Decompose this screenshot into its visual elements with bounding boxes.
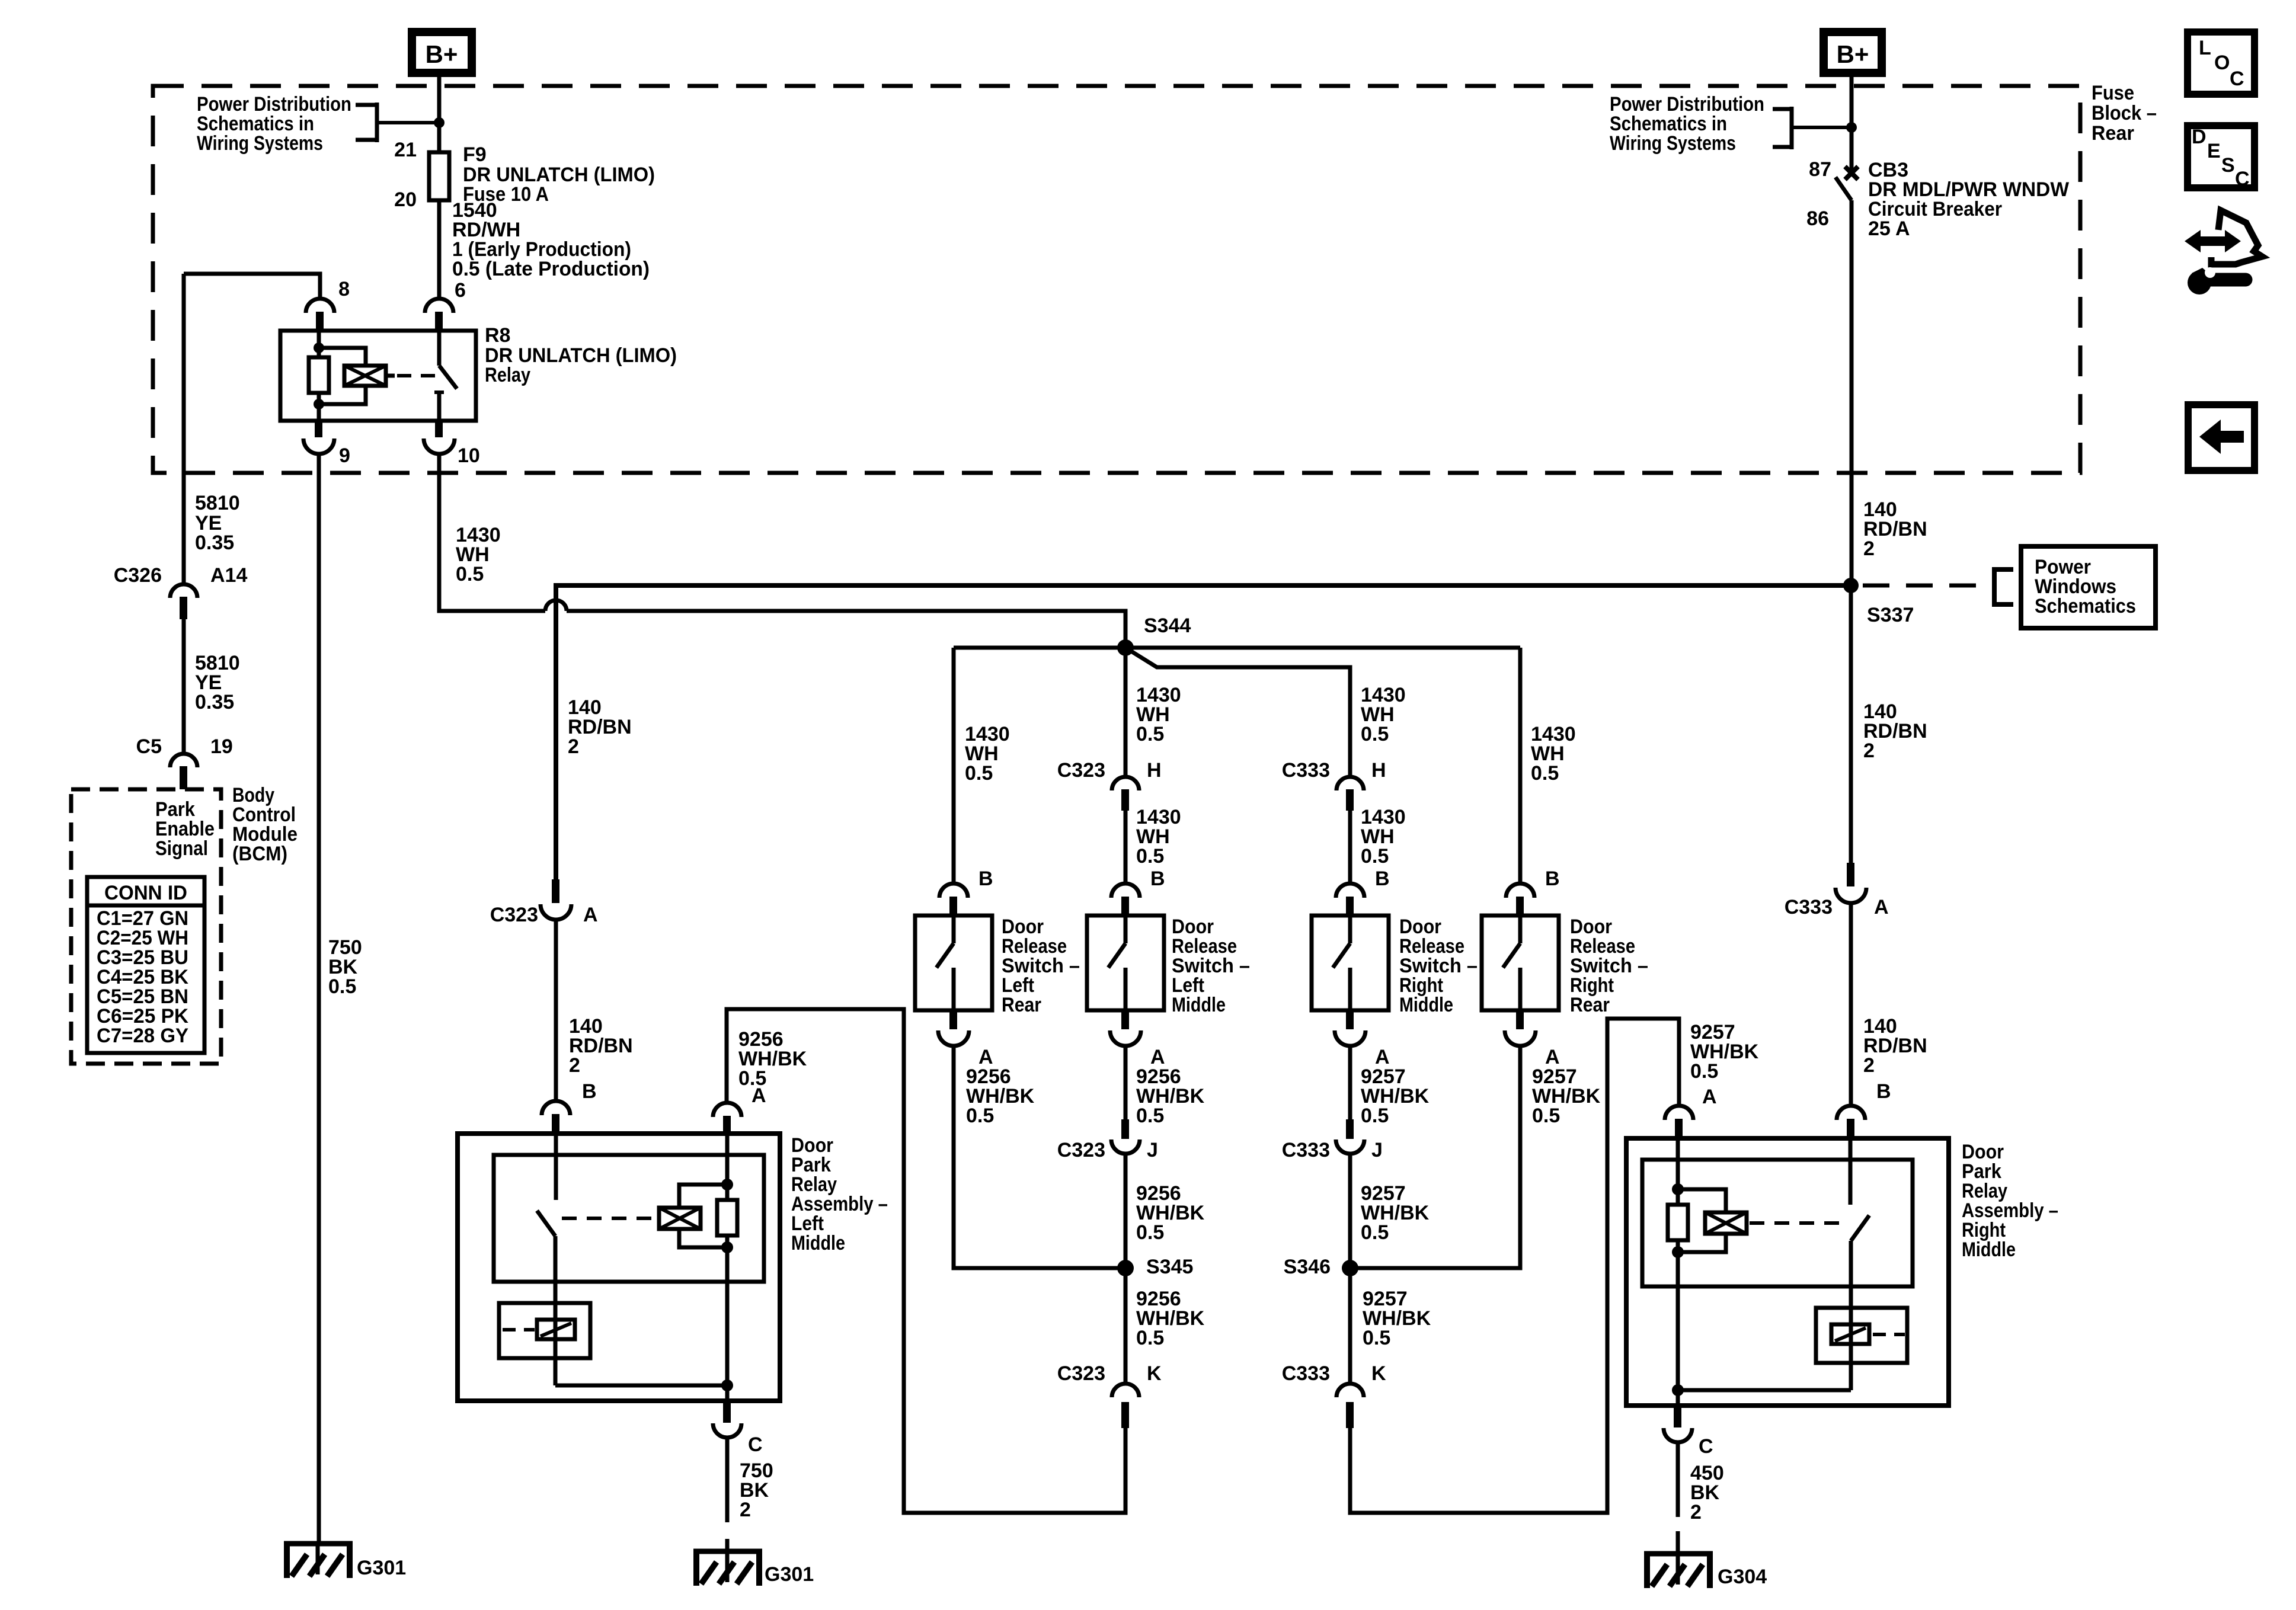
door release switch right rear box	[1482, 916, 1559, 1010]
label wire 140 RD/BN 2 (left column lower)	[569, 1015, 633, 1077]
label wire 9256 WH/BK 0.5 (below S345)	[1136, 1288, 1205, 1349]
svg-text:0.5: 0.5	[1136, 1105, 1164, 1127]
label wire 1430 WH 0.5 (at relay pin 10)	[456, 524, 501, 585]
connector C323 pin J (tick + arc)	[1111, 1119, 1140, 1154]
svg-text:C323: C323	[1057, 1139, 1105, 1161]
svg-text:J: J	[1371, 1139, 1383, 1161]
svg-text:0.5: 0.5	[1363, 1327, 1390, 1349]
svg-text:C326: C326	[114, 564, 162, 587]
splice S346	[1342, 1260, 1358, 1276]
label wire 5810 YE 0.35 (upper)	[195, 492, 240, 554]
svg-text:A: A	[583, 904, 598, 926]
svg-text:0.5: 0.5	[1361, 1105, 1389, 1127]
connector C323 pin H (arc + tick)	[1112, 777, 1139, 811]
body control module dashed box (BCM)	[71, 789, 221, 1064]
door release switch left rear box	[915, 916, 992, 1010]
wire S346 to C333 K	[1348, 1268, 1352, 1384]
label wire 9256 WH/BK 0.5 (relay assembly A)	[738, 1028, 807, 1090]
svg-text:L: L	[2199, 37, 2211, 59]
node coil bottom junction	[314, 399, 324, 409]
wire 750 BK from relay pin 9 to ground G301	[317, 454, 321, 1541]
label wire 1430 WH 0.5 (left middle lower)	[1136, 806, 1181, 868]
svg-text:0.5: 0.5	[1531, 762, 1559, 785]
connector A right middle (tick + arc)	[1335, 1010, 1366, 1046]
svg-text:A14: A14	[210, 564, 247, 587]
wire 140 RD/BN from S337 to C333 A	[1849, 585, 1853, 863]
svg-text:K: K	[1147, 1362, 1162, 1385]
svg-text:E: E	[2207, 140, 2221, 162]
power windows schematics box	[2021, 546, 2156, 628]
relay R8 coil branch wire	[317, 331, 321, 357]
wire S344 diagonal to right middle column	[1125, 648, 1350, 777]
wire bus through S344 to rear switch columns	[954, 646, 1520, 650]
label R8 DR UNLATCH (LIMO) Relay	[485, 324, 677, 386]
label Power Distribution Schematics in Wiring Systems (right)	[1610, 93, 1764, 155]
ground G301 (left)	[284, 1541, 353, 1578]
svg-text:R8: R8	[485, 324, 510, 347]
svg-text:Middle: Middle	[1399, 994, 1453, 1016]
label CB3 DR MDL/PWR WNDW Circuit Breaker 25 A	[1868, 159, 2070, 240]
label Door Release Switch - Right Middle	[1399, 916, 1478, 1016]
label Door Release Switch - Left Middle	[1172, 916, 1250, 1016]
connector pin 6 (arc + tick)	[425, 299, 453, 331]
fuse block dashed box (Fuse Block - Rear)	[153, 86, 2080, 473]
label Park Enable Signal	[155, 798, 215, 860]
svg-text:B: B	[1150, 868, 1165, 890]
label wire 9257 WH/BK 0.5 (relay assembly right A)	[1690, 1021, 1759, 1083]
connector A left middle (tick + arc)	[1110, 1010, 1141, 1046]
svg-text:H: H	[1371, 759, 1386, 782]
svg-text:G301: G301	[357, 1557, 406, 1579]
wire B+ left down to fuse	[437, 77, 442, 151]
wire 1430 WH continues to S344	[567, 611, 1125, 648]
wire fuse to relay pin 6	[437, 202, 442, 299]
connector B door park relay left (arc + tick)	[542, 1101, 570, 1135]
node bottom junction right assembly	[1672, 1384, 1684, 1396]
svg-text:0.5: 0.5	[1361, 723, 1389, 745]
connector pin 9 (tick + arc)	[303, 421, 334, 454]
svg-text:2: 2	[568, 735, 579, 758]
connector C323 pin A (tick + arc)	[541, 879, 571, 920]
svg-text:Relay: Relay	[485, 364, 530, 386]
door park relay assembly right inner relay box	[1642, 1160, 1913, 1286]
svg-text:C: C	[2235, 168, 2250, 190]
svg-text:CONN ID: CONN ID	[104, 882, 187, 904]
svg-text:C: C	[1699, 1435, 1713, 1458]
dashed wire to power windows schematics	[1863, 584, 1994, 588]
label Door Park Relay Assembly - Right Middle	[1962, 1141, 2058, 1261]
svg-text:Wiring Systems: Wiring Systems	[197, 132, 323, 155]
svg-text:C323: C323	[1057, 1362, 1105, 1385]
connector B door park relay right (arc + tick)	[1837, 1106, 1865, 1140]
svg-text:O: O	[2214, 52, 2230, 74]
node junction at power distribution tap (right)	[1846, 122, 1857, 133]
wire 9257 loop to door park relay right pin A	[1350, 1019, 1679, 1513]
splice S344	[1117, 639, 1134, 656]
svg-text:2: 2	[740, 1499, 751, 1521]
left assembly switch branch	[537, 1135, 556, 1385]
svg-text:Middle: Middle	[791, 1232, 845, 1254]
label wire 140 RD/BN 2 (left column upper)	[568, 696, 632, 758]
label F9 DR UNLATCH (LIMO) Fuse 10 A	[463, 143, 655, 206]
svg-text:B: B	[1876, 1080, 1891, 1103]
resistor inside relay R8	[309, 357, 329, 393]
svg-text:G304: G304	[1718, 1566, 1767, 1588]
connector pin 10 (tick + arc)	[424, 421, 455, 454]
svg-text:S: S	[2221, 154, 2235, 177]
label wire 140 RD/BN 2 (above S337)	[1863, 498, 1927, 560]
svg-text:C323: C323	[1057, 759, 1105, 782]
svg-text:Schematics: Schematics	[2035, 595, 2136, 617]
door release switch right middle box	[1312, 916, 1389, 1010]
svg-text:A: A	[1702, 1086, 1717, 1108]
right assembly bottom wire	[1678, 1388, 1851, 1393]
svg-text:C333: C333	[1282, 759, 1330, 782]
bracket power distribution (right)	[1773, 107, 1851, 149]
node bottom junction left assembly	[721, 1379, 733, 1391]
svg-text:0.5: 0.5	[965, 762, 993, 785]
svg-text:6: 6	[455, 279, 466, 302]
svg-text:Middle: Middle	[1172, 994, 1226, 1016]
wire 750 BK to ground G301	[725, 1438, 730, 1551]
svg-text:A: A	[1874, 896, 1889, 918]
connector C333 pin H (arc + tick)	[1336, 777, 1364, 811]
label Door Release Switch - Right Rear	[1570, 916, 1648, 1016]
left assembly coil (box with X)	[659, 1208, 701, 1229]
door park relay assembly right middle outer box	[1626, 1138, 1949, 1406]
left assembly coil branch	[679, 1135, 737, 1401]
connector B right rear (arc + tick)	[1506, 884, 1534, 917]
svg-text:Block –: Block –	[2092, 102, 2157, 124]
icon LOC box	[2188, 32, 2255, 94]
label Power Distribution Schematics in Wiring Systems (left)	[197, 93, 351, 155]
relay coil (box with X)	[344, 366, 395, 386]
svg-text:C: C	[2230, 68, 2244, 90]
connector pin 8 (arc + tick)	[306, 299, 334, 331]
label wire 9257 WH/BK 0.5 (above S346)	[1361, 1182, 1430, 1244]
wire resistor bottom	[317, 393, 321, 421]
label Body Control Module (BCM)	[232, 784, 298, 865]
svg-text:J: J	[1147, 1139, 1158, 1161]
bracket power distribution (left)	[356, 103, 439, 142]
svg-text:2: 2	[1863, 1054, 1875, 1077]
svg-text:Rear: Rear	[1002, 994, 1041, 1016]
wire 9256 loop to door park relay left pin A	[727, 1009, 1125, 1513]
connector C5 pin 19 (arc + tick)	[170, 754, 197, 789]
svg-text:Middle: Middle	[1962, 1238, 2016, 1261]
wire B+ right down to circuit breaker	[1850, 77, 1854, 173]
svg-text:0.5 (Late Production): 0.5 (Late Production)	[452, 258, 650, 280]
svg-text:C5: C5	[136, 735, 162, 758]
svg-text:B: B	[582, 1080, 597, 1103]
svg-text:S346: S346	[1284, 1256, 1331, 1278]
wire S345 to C323 K	[1124, 1268, 1128, 1384]
svg-text:21: 21	[394, 139, 417, 161]
connector A right rear (tick + arc)	[1505, 1010, 1536, 1046]
label wire 9257 WH/BK 0.5 (below A right middle)	[1361, 1065, 1430, 1127]
svg-text:20: 20	[394, 188, 417, 211]
connector C333 pin J (tick + arc)	[1336, 1119, 1364, 1154]
label wire 1540 RD/WH	[452, 199, 650, 280]
wire C333 J to S346	[1348, 1154, 1352, 1268]
svg-text:C333: C333	[1282, 1139, 1330, 1161]
wire hop bridge	[545, 600, 567, 611]
door park relay assembly left inner relay box	[494, 1155, 764, 1282]
connector B left middle (arc + tick)	[1111, 884, 1140, 917]
svg-text:C7=28 GY: C7=28 GY	[97, 1025, 188, 1047]
svg-text:Fuse: Fuse	[2092, 82, 2134, 104]
svg-text:19: 19	[210, 735, 233, 758]
wire C333 H to switch B	[1348, 811, 1352, 884]
svg-text:Rear: Rear	[1570, 994, 1610, 1016]
svg-text:0.5: 0.5	[1136, 845, 1164, 868]
door park relay assembly left middle outer box	[458, 1134, 780, 1401]
connector C door park relay left (tick + arc)	[713, 1401, 741, 1438]
wire 5810 YE from pin 8 branch down left side	[182, 274, 186, 584]
label wire 450 BK 2	[1690, 1462, 1724, 1523]
main bus wire 140 RD/BN from S337 to left column	[556, 585, 1850, 879]
svg-text:(BCM): (BCM)	[232, 843, 287, 865]
svg-text:8: 8	[338, 278, 350, 300]
battery feed B+ (left)	[412, 32, 472, 73]
icon DESC box	[2188, 126, 2255, 190]
svg-text:S344: S344	[1144, 614, 1191, 637]
label wire 750 BK 0.5	[328, 936, 362, 998]
svg-text:Rear: Rear	[2092, 122, 2134, 145]
label wire 9257 WH/BK 0.5 (right rear)	[1532, 1065, 1601, 1127]
connector A left rear (tick + arc)	[938, 1010, 969, 1046]
svg-text:2: 2	[1863, 740, 1875, 762]
svg-text:0.5: 0.5	[1361, 1221, 1389, 1244]
label Power Windows Schematics	[2035, 556, 2136, 617]
left assembly solenoid box	[499, 1303, 590, 1358]
connector C door park relay right (tick + arc)	[1664, 1406, 1692, 1442]
label wire 9256 WH/BK 0.5 (below A left middle)	[1136, 1065, 1205, 1127]
svg-text:0.5: 0.5	[1532, 1105, 1560, 1127]
icon back arrow box	[2188, 405, 2255, 470]
label wire 750 BK 2	[740, 1459, 773, 1521]
svg-text:B+: B+	[1837, 40, 1869, 68]
right assembly coil (box with X)	[1705, 1212, 1747, 1234]
label wire 1430 WH 0.5 (left rear)	[965, 723, 1010, 785]
label wire 140 RD/BN 2 (below S337)	[1863, 700, 1927, 762]
wire coil loop	[319, 348, 366, 404]
svg-text:C333: C333	[1785, 896, 1833, 918]
wire C326 to C5	[182, 619, 186, 754]
label wire 1430 WH 0.5 (right rear)	[1531, 723, 1576, 785]
svg-text:2: 2	[1863, 537, 1875, 560]
wire 9256 left rear down to S345	[954, 1046, 1125, 1268]
wire 1430 WH from relay pin 10 to S344 (with hop over 140 RD/BN)	[439, 454, 545, 611]
svg-text:F9: F9	[463, 143, 487, 166]
wire switch A to C333 J	[1348, 1046, 1352, 1119]
relay R8 switch	[434, 331, 457, 421]
svg-text:0.5: 0.5	[1690, 1060, 1718, 1083]
svg-text:S345: S345	[1146, 1256, 1193, 1278]
svg-text:10: 10	[458, 444, 480, 467]
svg-text:0.5: 0.5	[1136, 1327, 1164, 1349]
wire 140 RD/BN from CB3 to S337	[1850, 200, 1854, 585]
label wire 5810 YE 0.35 (lower)	[195, 652, 240, 713]
svg-text:B: B	[978, 868, 993, 890]
CONN ID table	[87, 877, 204, 1053]
svg-text:C323: C323	[490, 904, 538, 926]
ground G304	[1644, 1551, 1713, 1588]
connector C333 pin A (tick + arc)	[1835, 863, 1866, 903]
wire 9257 right rear down to S346	[1350, 1046, 1520, 1268]
svg-text:0.5: 0.5	[1361, 845, 1389, 868]
svg-text:K: K	[1371, 1362, 1386, 1385]
connector C326 pin A14 (arc + tick)	[170, 584, 197, 619]
connector C323 pin K (arc + tick)	[1112, 1384, 1139, 1428]
svg-text:A: A	[752, 1084, 766, 1107]
icon service tool (arrows, outline, wrench)	[2185, 210, 2262, 295]
svg-text:0.35: 0.35	[195, 532, 234, 554]
battery feed B+ (right)	[1824, 32, 1882, 73]
label Fuse Block - Rear	[2092, 82, 2157, 145]
ground G301 (middle)	[693, 1549, 762, 1586]
label wire 140 RD/BN 2 (right column lower)	[1863, 1015, 1927, 1077]
svg-text:9: 9	[339, 444, 350, 467]
svg-text:H: H	[1147, 759, 1162, 782]
svg-text:0.5: 0.5	[456, 563, 484, 585]
wire 140 RD/BN to door park relay left pin B	[554, 920, 558, 1101]
connector B right middle (arc + tick)	[1336, 884, 1364, 917]
wire 140 RD/BN to door park relay right pin B	[1849, 903, 1853, 1106]
right assembly solenoid box	[1816, 1308, 1907, 1363]
svg-text:0.35: 0.35	[195, 691, 234, 713]
circuit breaker CB3	[1835, 167, 1858, 200]
label wire 9257 WH/BK 0.5 (below S346)	[1363, 1288, 1431, 1349]
label wire 1430 WH 0.5 (right middle upper)	[1361, 684, 1406, 745]
svg-text:D: D	[2192, 126, 2207, 148]
label Door Release Switch - Left Rear	[1002, 916, 1080, 1016]
svg-text:C333: C333	[1282, 1362, 1330, 1385]
splice S337	[1843, 578, 1859, 593]
left assembly bottom wire	[555, 1384, 727, 1388]
wire C323 H to switch B	[1124, 811, 1128, 884]
label wire 9256 WH/BK 0.5 (above S345)	[1136, 1182, 1205, 1244]
fuse F9	[429, 152, 449, 200]
right assembly switch branch	[1850, 1140, 1869, 1390]
left assembly linkage dashes	[562, 1217, 657, 1220]
svg-text:B+: B+	[426, 40, 458, 68]
connector C333 pin K (arc + tick)	[1336, 1384, 1364, 1428]
svg-text:2: 2	[569, 1054, 580, 1077]
svg-text:B: B	[1375, 868, 1390, 890]
svg-text:0.5: 0.5	[328, 975, 356, 998]
label Door Park Relay Assembly - Left Middle	[791, 1134, 888, 1254]
svg-text:0.5: 0.5	[1136, 1221, 1164, 1244]
wire switch A to C323 J	[1124, 1046, 1128, 1119]
bracket power windows schematics	[1994, 567, 2013, 607]
label wire 1430 WH 0.5 (left middle upper)	[1136, 684, 1181, 745]
svg-text:0.5: 0.5	[1136, 723, 1164, 745]
connector A door park relay right (arc + tick)	[1665, 1106, 1693, 1138]
wire relay pin 8 feed from BCM branch	[184, 274, 320, 299]
linkage dashes relay R8	[397, 374, 437, 377]
relay R8 box	[280, 331, 476, 421]
svg-text:2: 2	[1690, 1501, 1702, 1523]
wire C323 J to S345	[1124, 1154, 1128, 1268]
wire 1430 WH right rear	[1518, 648, 1523, 884]
connector A door park relay left (arc + tick)	[713, 1103, 741, 1135]
wire 1430 WH left rear	[952, 648, 956, 884]
wire 450 BK to ground G304	[1676, 1442, 1680, 1554]
svg-text:25 A: 25 A	[1868, 217, 1910, 240]
svg-text:86: 86	[1806, 207, 1829, 230]
wire 1430 WH S344 to C323 H	[1124, 648, 1128, 777]
svg-text:Wiring Systems: Wiring Systems	[1610, 132, 1736, 155]
svg-text:5810: 5810	[195, 492, 240, 514]
svg-text:G301: G301	[765, 1563, 814, 1586]
splice S345	[1117, 1260, 1134, 1276]
node coil top junction	[314, 343, 324, 353]
svg-text:B: B	[1545, 868, 1560, 890]
connector B left rear (arc + tick)	[939, 884, 968, 917]
svg-text:Signal: Signal	[155, 837, 208, 860]
label wire 9256 WH/BK 0.5 (left rear)	[966, 1065, 1035, 1127]
right assembly coil branch	[1668, 1140, 1726, 1406]
svg-text:0.5: 0.5	[966, 1105, 994, 1127]
svg-text:87: 87	[1809, 158, 1831, 181]
svg-text:C: C	[748, 1433, 763, 1456]
label wire 1430 WH 0.5 (right middle lower)	[1361, 806, 1406, 868]
node junction at power distribution tap (left)	[434, 117, 445, 128]
svg-text:S337: S337	[1867, 604, 1914, 626]
right assembly linkage dashes	[1750, 1221, 1844, 1225]
door release switch left middle box	[1087, 916, 1164, 1010]
